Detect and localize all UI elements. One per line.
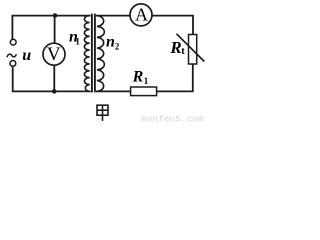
caption 甲 (figure label, drawn strokes) [97,105,108,121]
wire: ammeter to top-right corner, down to Rt [152,16,193,35]
wire: top primary side [12,16,89,40]
transformer secondary coil n2 [97,16,104,92]
svg-text:1: 1 [144,76,149,86]
wire: voltmeter top lead [54,16,56,44]
junction node (bottom, voltmeter tap) [52,89,57,94]
svg-text:manfen5.com: manfen5.com [141,114,204,125]
wire: Rt bottom lead to bottom-right corner [157,64,193,91]
terminal (bottom, source u) [10,61,16,67]
transformer core line left [91,14,93,93]
voltmeter U-V circle [43,43,65,65]
ammeter U-A circle [130,4,152,26]
wire: R1 left to secondary bottom [97,90,131,92]
resistor R1 (bottom, horizontal) [131,87,157,96]
label ~ (AC tilde) [7,54,16,57]
svg-text:R: R [169,38,181,57]
svg-text:A: A [135,5,148,25]
wire: voltmeter bottom lead [53,65,55,91]
transformer core line right [94,14,96,93]
transformer primary coil n1 [84,16,89,92]
terminal (top, source u) [10,39,16,45]
wire: secondary top to ammeter [97,15,130,17]
svg-text:2: 2 [115,41,120,51]
thermistor Rt diagonal strike [177,34,205,62]
thermistor Rt body (right, vertical) [189,35,197,65]
wire: bottom primary side [13,67,90,92]
svg-text:R: R [132,69,144,86]
junction node (top, voltmeter tap) [53,13,58,18]
svg-text:n: n [106,33,115,50]
svg-text:u: u [22,47,31,64]
svg-text:V: V [47,44,61,65]
svg-text:t: t [181,46,185,57]
svg-text:1: 1 [75,36,80,46]
